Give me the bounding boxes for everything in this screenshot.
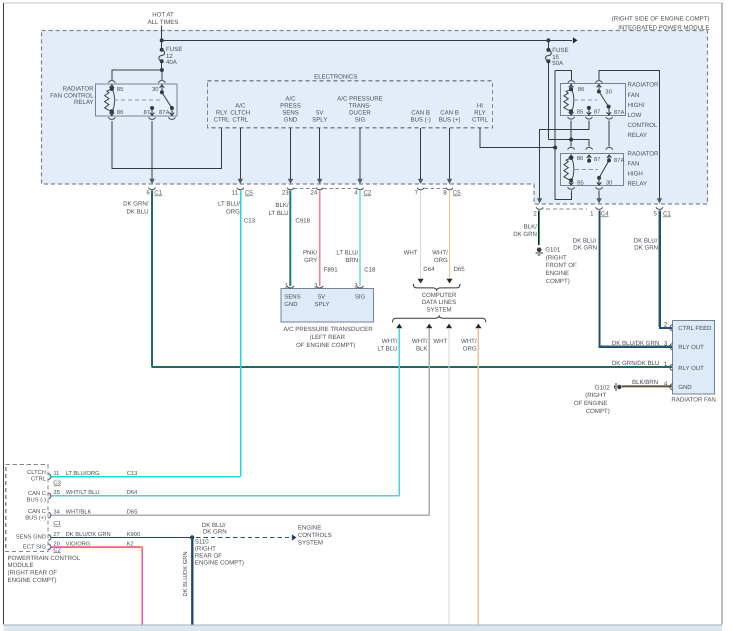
svg-text:40A: 40A	[166, 59, 178, 66]
relay K3 pin 87	[586, 147, 593, 149]
svg-text:DK GRN: DK GRN	[573, 245, 597, 252]
svg-text:6: 6	[146, 190, 150, 197]
svg-text:COMPUTER: COMPUTER	[422, 292, 457, 299]
node high relay feed splice	[569, 138, 573, 142]
IPM pin 4 connector C2	[357, 188, 364, 190]
svg-text:85: 85	[117, 86, 124, 93]
svg-text:DK GRN/DK BLU: DK GRN/DK BLU	[612, 360, 659, 367]
connector dashed bridge pins 24-4	[324, 187, 357, 189]
svg-text:CTRL: CTRL	[472, 116, 489, 123]
svg-text:C2: C2	[364, 190, 372, 197]
wire WHT to lower section	[446, 324, 452, 329]
svg-text:ALL TIMES: ALL TIMES	[148, 19, 179, 26]
svg-text:CONTROL: CONTROL	[628, 122, 658, 129]
svg-text:WHT/LT BLU: WHT/LT BLU	[66, 489, 100, 496]
svg-text:COMPT): COMPT)	[546, 278, 570, 285]
svg-text:ORG: ORG	[226, 208, 240, 215]
svg-text:87A: 87A	[614, 109, 625, 116]
wire bracket to relay K2 pin 86	[555, 70, 571, 80]
svg-text:(RIGHT: (RIGHT	[585, 392, 606, 399]
node relay feed split	[160, 68, 164, 72]
svg-text:CAN C: CAN C	[28, 508, 46, 515]
svg-text:LT BLU/ORG: LT BLU/ORG	[66, 470, 100, 477]
svg-text:86: 86	[577, 155, 584, 162]
svg-text:WHT: WHT	[404, 249, 418, 256]
wire relay K1 pin 86 to RLY CTRL	[112, 121, 222, 169]
svg-text:LT BLU: LT BLU	[377, 346, 397, 353]
svg-text:WHT: WHT	[433, 338, 447, 345]
svg-text:A/C: A/C	[235, 102, 246, 109]
svg-text:50A: 50A	[552, 60, 564, 67]
wire DK BLU/DK GRN pin 1 to radiator fan RLY OUT 3	[598, 211, 600, 346]
svg-text:FAN: FAN	[628, 161, 640, 168]
svg-text:ENGINE: ENGINE	[546, 270, 569, 277]
wire splice to relay K3 pin 87	[571, 140, 589, 147]
svg-text:LT BLU/: LT BLU/	[218, 201, 240, 208]
svg-text:WHT/BLK: WHT/BLK	[66, 509, 92, 516]
svg-text:COMPT): COMPT)	[586, 408, 610, 415]
svg-text:PRESS: PRESS	[280, 102, 301, 109]
svg-text:HOT AT: HOT AT	[152, 12, 174, 19]
wire WHT/ORG pin 8 to data lines D65	[449, 191, 451, 279]
relay K2 switch	[599, 92, 609, 107]
svg-text:WHT/: WHT/	[412, 338, 428, 345]
svg-text:CLTCH: CLTCH	[230, 109, 250, 116]
svg-text:ENGINE COMPT): ENGINE COMPT)	[8, 577, 57, 584]
next section strip at bottom	[4, 625, 722, 631]
connector C4 dashed separator	[540, 208, 587, 210]
wire relay K1 pin 87 to pin 6 exit	[151, 121, 153, 180]
svg-text:C5: C5	[245, 190, 253, 197]
relay K1 box	[96, 84, 178, 116]
svg-text:CAN C: CAN C	[28, 490, 46, 497]
svg-text:BRN: BRN	[345, 257, 358, 264]
node feed split	[160, 38, 164, 42]
svg-text:RELAY: RELAY	[628, 181, 648, 188]
wire relay K2 pin 30 feed to pin 5 exit	[599, 70, 660, 199]
relay K1 pin 87	[150, 106, 154, 110]
electronics module outline	[208, 81, 493, 128]
wire WHT/LT BLU to PCM CAN C BUS (-)	[396, 324, 402, 329]
relay K1 pin 30	[158, 81, 165, 83]
svg-text:CONTROLS: CONTROLS	[298, 532, 332, 539]
svg-text:DUCER: DUCER	[349, 109, 371, 116]
IPM pin 7 connector	[417, 188, 424, 190]
svg-text:5V: 5V	[318, 293, 325, 300]
wire BLK/LT BLU pin 23 to transducer SENS GND	[289, 191, 291, 286]
svg-text:SENS GND: SENS GND	[16, 533, 46, 540]
svg-text:4: 4	[664, 380, 668, 387]
svg-text:BLK/: BLK/	[524, 223, 538, 230]
svg-text:CAN B: CAN B	[411, 109, 430, 116]
svg-text:DK GRN: DK GRN	[203, 528, 227, 535]
wire WHT/ORG to lower section	[475, 324, 481, 329]
wire PNK/GRY pin 24 to transducer 5V SPLY	[319, 191, 321, 286]
integrated power module outline	[42, 31, 708, 205]
svg-text:DK GRN: DK GRN	[513, 231, 537, 238]
wire VIO/ORG PCM pin 20 down	[51, 545, 143, 547]
svg-text:ENGINE: ENGINE	[298, 525, 321, 532]
svg-text:87: 87	[594, 109, 601, 116]
relay K3 coil	[564, 158, 571, 181]
wire WHT pin 7 to data lines D64	[420, 191, 422, 279]
radiator fan pin 3 RLY OUT	[670, 343, 673, 350]
svg-text:3: 3	[664, 340, 668, 347]
svg-text:87A: 87A	[159, 109, 170, 116]
svg-text:RELAY: RELAY	[74, 99, 94, 106]
relay K3 pin 86	[568, 147, 575, 149]
relay K3 switch	[599, 160, 609, 178]
svg-text:RADIATOR: RADIATOR	[628, 150, 660, 157]
relay K2 coil	[564, 89, 571, 111]
computer data lines brace	[413, 284, 460, 290]
svg-text:C1: C1	[53, 520, 60, 527]
svg-text:SPLY: SPLY	[315, 301, 330, 308]
svg-text:11: 11	[232, 190, 239, 197]
powertrain control module outline	[6, 465, 48, 552]
relay K1 switch	[162, 92, 172, 108]
svg-text:DK BLU/DK GRN: DK BLU/DK GRN	[182, 551, 189, 596]
svg-text:5V: 5V	[316, 109, 324, 116]
svg-text:D65: D65	[454, 266, 466, 273]
relay K1 pin 87A	[171, 108, 173, 115]
wire CAN B BUS (+) to pin 8 exit	[449, 128, 451, 179]
data lines system lower brace	[393, 316, 486, 322]
relay K3 pin 87A	[606, 147, 613, 149]
svg-text:LT BLU/: LT BLU/	[336, 249, 358, 256]
relay K3 box	[561, 154, 624, 186]
wire relay K2 pin 85 to splice	[570, 121, 572, 140]
svg-text:SYSTEM: SYSTEM	[298, 540, 323, 547]
svg-text:G102: G102	[595, 384, 611, 391]
wire relay K2 pin 87 to pin 2 exit	[540, 121, 589, 199]
svg-text:(RIGHT REAR OF: (RIGHT REAR OF	[8, 570, 58, 577]
svg-text:OF ENGINE: OF ENGINE	[574, 400, 608, 407]
relay K2 pin 87A	[608, 107, 610, 115]
svg-text:23: 23	[282, 190, 289, 197]
wire relay K3 pin 30 to pin 1 exit	[598, 191, 600, 199]
splice S110	[190, 535, 194, 539]
transducer pin 1 SENS GND	[287, 286, 294, 288]
svg-text:24: 24	[311, 190, 318, 197]
wire DK BLU/DK GRN PCM pin 27 to splice S110	[51, 537, 192, 539]
svg-text:C13: C13	[244, 217, 256, 224]
wire fuse F12 to relay split	[161, 61, 163, 70]
wire fuse F15 down to splice	[547, 61, 549, 139]
svg-text:A/C PRESSURE TRANSDUCER: A/C PRESSURE TRANSDUCER	[283, 326, 373, 333]
wire hot feed down	[161, 26, 163, 41]
svg-text:RLY OUT: RLY OUT	[678, 344, 704, 351]
node fuse F15 tap	[546, 38, 550, 42]
svg-text:SPLY: SPLY	[312, 116, 327, 123]
svg-text:CTRL: CTRL	[31, 475, 47, 482]
svg-text:RLY OUT: RLY OUT	[678, 365, 704, 372]
wire CAN B BUS (-) to pin 7 exit	[420, 128, 422, 179]
IPM pin 6 connector C1	[149, 188, 156, 190]
svg-text:1: 1	[664, 361, 668, 368]
svg-text:LOW: LOW	[628, 112, 642, 119]
svg-text:TRANS-: TRANS-	[349, 102, 372, 109]
relay K2 internal dashed link	[574, 99, 597, 101]
svg-text:FRONT OF: FRONT OF	[546, 262, 577, 269]
svg-text:11: 11	[53, 471, 59, 477]
relay K1 coil	[105, 89, 112, 112]
IPM pin 8 connector C5	[446, 188, 453, 190]
page left border	[3, 3, 5, 625]
wire A/C CLTCH CTRL to pin 11 exit	[239, 128, 241, 179]
svg-text:2: 2	[533, 211, 537, 218]
wire BLK/BRN ground G102 to radiator fan GND 4	[622, 385, 673, 387]
svg-text:A/C: A/C	[285, 95, 296, 102]
svg-text:(LEFT REAR: (LEFT REAR	[310, 334, 346, 341]
svg-text:WHT/: WHT/	[461, 338, 477, 345]
svg-text:DK GRN: DK GRN	[634, 245, 658, 252]
svg-text:C4: C4	[601, 211, 609, 218]
wire relay K2 pin 87A to relay K3 pin 87A	[608, 121, 610, 147]
svg-text:HIGH: HIGH	[628, 171, 643, 178]
wire DK BLU/DK GRN from S110 down	[191, 538, 193, 625]
wire to relay K1 coil pin 85	[112, 70, 162, 80]
page right border	[721, 3, 723, 625]
relay K2 pin 87	[587, 106, 591, 110]
wire DK BLU/DK GRN pin 5 to radiator fan CTRL FEED 2	[658, 211, 660, 328]
svg-text:HIGH/: HIGH/	[628, 102, 645, 109]
svg-text:SENS: SENS	[282, 109, 299, 116]
transducer pin 3 SIG	[357, 286, 364, 288]
svg-text:BUS (+): BUS (+)	[25, 514, 46, 521]
svg-text:RLY: RLY	[474, 109, 485, 116]
svg-text:D64: D64	[127, 489, 138, 496]
relay K3 pin 30	[598, 178, 600, 185]
svg-text:DATA LINES: DATA LINES	[422, 299, 456, 306]
svg-text:HI: HI	[477, 102, 483, 109]
svg-text:(RIGHT: (RIGHT	[546, 254, 567, 261]
svg-text:34: 34	[53, 509, 60, 516]
svg-text:30: 30	[152, 86, 159, 93]
radiator fan pin 1 RLY OUT	[670, 364, 673, 371]
svg-text:ORG: ORG	[434, 257, 448, 264]
wire A/C PRESS SENS GND to pin 23 exit	[290, 128, 292, 179]
svg-text:G101: G101	[545, 247, 561, 254]
wire LT BLU/ORG pin 11 to PCM pin 11	[240, 191, 242, 477]
connector dashed bridge pins 7-8	[424, 187, 446, 189]
svg-text:S110: S110	[195, 538, 209, 545]
svg-text:RELAY: RELAY	[628, 132, 648, 139]
svg-text:C13: C13	[127, 470, 138, 477]
svg-text:DK BLU/DK GRN: DK BLU/DK GRN	[612, 340, 659, 347]
svg-text:CTRL: CTRL	[232, 116, 249, 123]
page top border	[4, 2, 723, 4]
svg-text:LT BLU: LT BLU	[268, 210, 288, 217]
relay K1 internal dashed link	[114, 99, 162, 101]
feed continuation arrow	[548, 39, 572, 41]
a/c pressure transducer box	[281, 289, 374, 323]
svg-text:BLK/BRN: BLK/BRN	[632, 379, 658, 386]
wire splice down to relay K3 pin 86	[570, 140, 572, 147]
svg-text:DK BLU/: DK BLU/	[573, 237, 597, 244]
svg-text:C1: C1	[154, 190, 162, 197]
svg-text:GND: GND	[284, 301, 298, 308]
svg-text:87: 87	[594, 156, 601, 163]
transducer pin 2 5V SPLY	[316, 286, 323, 288]
relay K1 pin 86	[110, 109, 114, 113]
svg-text:ELECTRONICS: ELECTRONICS	[314, 73, 357, 80]
IPM pin 5 connector C1	[656, 207, 663, 209]
svg-text:WHT/: WHT/	[382, 338, 398, 345]
svg-text:SIG: SIG	[355, 293, 366, 300]
relay K2 pin 86	[568, 81, 575, 83]
svg-text:2: 2	[664, 321, 668, 328]
svg-text:CTRL FEED: CTRL FEED	[678, 325, 712, 332]
svg-text:REAR OF: REAR OF	[195, 552, 222, 559]
svg-text:87A: 87A	[614, 157, 625, 164]
wire HI RLY CTRL to junction	[480, 128, 555, 147]
svg-text:RADIATOR FAN: RADIATOR FAN	[671, 396, 715, 403]
svg-text:GND: GND	[284, 116, 298, 123]
svg-text:GRY: GRY	[304, 257, 317, 264]
svg-text:86: 86	[578, 86, 585, 93]
svg-text:SENS: SENS	[284, 293, 300, 300]
svg-text:CAN B: CAN B	[440, 109, 459, 116]
IPM pin 2 connector	[536, 207, 543, 209]
svg-text:C1: C1	[663, 211, 671, 218]
svg-text:DK BLU/: DK BLU/	[634, 237, 658, 244]
svg-text:BUS (+): BUS (+)	[439, 116, 461, 123]
svg-text:CTRL: CTRL	[214, 116, 231, 123]
fuse F15 50A	[547, 40, 549, 50]
svg-text:C918: C918	[295, 217, 310, 224]
svg-text:OF ENGINE COMPT): OF ENGINE COMPT)	[296, 342, 355, 349]
connector dashed bridge pins 23-24	[294, 187, 316, 189]
svg-text:GND: GND	[678, 384, 692, 391]
relay K3 internal dashed link	[575, 169, 598, 171]
svg-text:D65: D65	[127, 509, 138, 516]
radiator fan pin 4 GND	[670, 383, 673, 390]
svg-text:D64: D64	[423, 266, 435, 273]
svg-text:BUS (-): BUS (-)	[27, 496, 46, 503]
svg-text:MODULE: MODULE	[8, 562, 34, 569]
IPM pin 1 connector C4	[596, 207, 603, 209]
wire to relay K1 contact 30	[161, 70, 163, 80]
fuse F12 40A	[161, 40, 163, 49]
svg-text:INTEGRATED POWER MODULE: INTEGRATED POWER MODULE	[618, 25, 709, 32]
radiator fan pin 2 CTRL FEED	[670, 324, 673, 331]
relay K2 box	[561, 84, 626, 116]
wire TRANSDUCER SIG to pin 4 exit	[359, 128, 361, 179]
wire BLK/DK GRN pin 2 to ground G101	[537, 211, 539, 245]
wire WHT/BLK to PCM CAN C BUS (+)	[426, 324, 432, 329]
svg-text:RLY: RLY	[216, 109, 227, 116]
svg-text:8: 8	[443, 190, 447, 197]
svg-text:DK BLU: DK BLU	[126, 208, 148, 215]
svg-text:86: 86	[117, 109, 124, 116]
IPM pin 24 connector	[316, 188, 323, 190]
svg-text:BUS (-): BUS (-)	[410, 116, 430, 123]
wire junction to relay K3 pin 85	[555, 148, 571, 200]
svg-text:CLTCH: CLTCH	[27, 469, 46, 476]
svg-text:WHT/: WHT/	[432, 249, 448, 256]
radiator fan box	[673, 321, 715, 395]
svg-text:RADIATOR: RADIATOR	[628, 82, 660, 89]
svg-text:85: 85	[577, 109, 584, 116]
svg-text:A/C PRESSURE: A/C PRESSURE	[337, 95, 382, 102]
wire feed bus to right	[162, 39, 549, 41]
svg-text:C3: C3	[53, 480, 60, 487]
ground G102	[617, 385, 621, 389]
svg-text:87: 87	[143, 109, 150, 116]
svg-text:35: 35	[53, 489, 59, 496]
svg-text:(RIGHT SIDE OF ENGINE COMPT): (RIGHT SIDE OF ENGINE COMPT)	[612, 16, 710, 23]
svg-text:SIG: SIG	[355, 116, 366, 123]
svg-text:DK GRN/: DK GRN/	[123, 201, 149, 208]
svg-text:30: 30	[605, 88, 612, 95]
relay K2 pin 30	[595, 81, 602, 83]
svg-text:BLK/: BLK/	[275, 202, 289, 209]
relay K2 pin 85	[570, 111, 572, 115]
node HI RLY CTRL junction	[553, 146, 557, 150]
wire LT BLU/BRN pin 4 to transducer SIG	[359, 191, 361, 286]
IPM pin 11 connector C5	[237, 188, 244, 190]
svg-text:C18: C18	[364, 267, 376, 274]
ground G101	[537, 248, 542, 253]
svg-text:PNK/: PNK/	[303, 249, 318, 256]
svg-text:30: 30	[606, 179, 613, 186]
wire 5V SPLY to pin 24 exit	[319, 128, 321, 179]
svg-text:ECT SIG: ECT SIG	[23, 543, 47, 550]
svg-text:ENGINE COMPT): ENGINE COMPT)	[195, 559, 244, 566]
relay K3 pin 85	[570, 180, 572, 185]
svg-text:POWERTRAIN CONTROL: POWERTRAIN CONTROL	[8, 555, 81, 562]
svg-text:C5: C5	[453, 190, 461, 197]
wire DK GRN/DK BLU pin 6 to radiator fan RLY OUT 1	[150, 191, 152, 367]
svg-text:ORG: ORG	[463, 346, 477, 353]
svg-text:SYSTEM: SYSTEM	[426, 307, 451, 314]
relay K1 pin 85	[108, 81, 115, 83]
svg-text:BLK: BLK	[416, 346, 428, 353]
svg-text:85: 85	[577, 179, 584, 186]
svg-text:FAN: FAN	[628, 92, 640, 99]
svg-text:F891: F891	[324, 267, 339, 274]
IPM pin 23 connector	[287, 188, 294, 190]
